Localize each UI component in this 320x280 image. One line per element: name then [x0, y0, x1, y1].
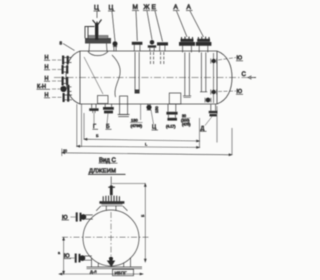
nozzle Ж neck	[150, 48, 154, 52]
svg-text:С: С	[242, 72, 247, 78]
bottom valve Ц handwheel	[146, 105, 151, 110]
extension line leftmost	[61, 149, 63, 157]
standpipe flange	[118, 115, 130, 117]
dim fraction bar	[130, 122, 143, 124]
leader Ж	[147, 11, 152, 40]
left nozzle Н3 stub	[62, 79, 68, 84]
nozzle А2 flange	[197, 39, 210, 42]
right vertical dimension	[144, 184, 146, 263]
nozzle М flange	[132, 42, 143, 45]
bottom nozzle Г neck	[92, 104, 96, 108]
left nozzle КН flanges	[67, 85, 69, 94]
height dim connector	[112, 183, 145, 185]
bottom nozzle П neck	[168, 104, 176, 112]
base plate	[87, 267, 143, 269]
leader Е	[155, 11, 163, 42]
nozzle Е internal stub	[161, 52, 164, 64]
end view horizontal centerline	[62, 236, 150, 238]
bottom nozzle Г flange	[89, 108, 98, 111]
left nozzle Н1 flanges	[62, 56, 64, 65]
leader Ц2	[112, 12, 115, 42]
internal baffle curve	[112, 55, 120, 97]
svg-text:(4.17): (4.17)	[166, 125, 175, 129]
svg-text:Ц: Ц	[94, 5, 99, 12]
nozzle Е flange	[157, 42, 168, 45]
nozzle А1 flange	[181, 39, 194, 42]
nozzle А1 studs	[182, 37, 193, 39]
nozzle Ю upper valve	[81, 214, 87, 220]
svg-text:150: 150	[154, 106, 159, 113]
head leader 5	[63, 44, 75, 51]
vessel shell top line	[80, 50, 217, 52]
cluster shoulders	[96, 206, 127, 211]
nozzle Е neck	[160, 46, 165, 52]
leader М	[136, 11, 137, 41]
end view vertical centerline	[110, 212, 112, 266]
leader Д	[205, 117, 212, 126]
support leg left inner	[97, 263, 99, 267]
valve Ц2 handwheel	[113, 41, 118, 46]
svg-text:а: а	[58, 251, 60, 255]
drain fitting circle	[109, 257, 113, 261]
extension line right head weld	[216, 106, 218, 143]
right head fitting Ю1	[212, 59, 216, 63]
view arrow С	[248, 76, 256, 79]
valve Ц2 stem	[113, 46, 117, 51]
vent mast body	[110, 186, 113, 196]
left nozzle КН valve handwheel	[60, 86, 66, 92]
vessel shell bottom line	[80, 103, 217, 105]
svg-text:130: 130	[131, 118, 138, 123]
bottom nozzle Б neck	[105, 104, 111, 107]
nozzle Д flanges	[209, 111, 218, 114]
bottom dimension line	[59, 273, 143, 275]
svg-text:ИБПГ: ИБПГ	[115, 271, 128, 276]
davit bracket	[85, 27, 95, 39]
vessel centerline	[54, 77, 256, 79]
leader Б	[107, 113, 108, 123]
leader Г	[93, 113, 95, 124]
manhole cover	[88, 36, 108, 39]
internal floor box 2	[169, 93, 181, 104]
davit fork	[93, 20, 102, 26]
left nozzle Н3 flanges	[62, 77, 64, 86]
right head fitting Ю2	[212, 90, 216, 94]
nozzle А2 neck	[199, 46, 208, 53]
bottom nozzle Д	[211, 105, 216, 111]
svg-text:М: М	[133, 4, 138, 11]
svg-text:30: 30	[182, 114, 186, 118]
svg-text:А: А	[187, 4, 192, 11]
cluster neck	[106, 206, 116, 210]
bottom standpipe	[120, 96, 128, 115]
left head	[66, 51, 80, 104]
svg-text:20: 20	[63, 149, 67, 153]
internal diagonal brace	[84, 57, 103, 94]
bottom nozzle П flanges	[166, 112, 177, 115]
support leg left outer	[91, 258, 93, 268]
internal baffle near right head	[213, 53, 215, 103]
leader Ц1	[96, 12, 98, 19]
dimension line 1	[84, 138, 200, 142]
leader Ю upper	[71, 216, 76, 218]
left nozzle Н2 flanges	[62, 65, 64, 74]
svg-text:ДЛЖЕИМ: ДЛЖЕИМ	[89, 169, 116, 175]
leader 130 dim	[140, 105, 142, 121]
svg-text:Б: Б	[96, 133, 99, 138]
nozzle А1 pipe foot	[183, 96, 191, 98]
drain bracket triangle	[107, 261, 115, 268]
nozzle Ж flange	[148, 45, 156, 47]
nozzle Ж internal stub	[150, 52, 153, 64]
leader Ю lower	[70, 257, 75, 259]
leader А2	[190, 11, 204, 37]
left nozzle Н1 stub	[62, 58, 72, 63]
mast crossbar	[108, 186, 115, 188]
head drain fitting	[206, 98, 211, 103]
boxed label ИБПГ	[113, 269, 134, 275]
svg-text:Е: Е	[152, 4, 157, 11]
leader А1	[177, 11, 188, 37]
nozzle М pipe tip	[135, 90, 140, 94]
leader Ю1	[218, 58, 236, 61]
right head weld seam	[216, 51, 218, 104]
end view nozzle Ю lower stub	[85, 256, 92, 260]
left labels leaders	[52, 60, 63, 97]
nozzle М internal pipe	[135, 52, 139, 90]
nozzle А2 pipe foot	[200, 91, 207, 93]
end view nozzle Ю upper stub	[86, 215, 93, 219]
end view shell circle	[83, 210, 139, 266]
nozzle А1 neck	[183, 46, 192, 53]
nozzle Ю lower valve	[80, 255, 86, 261]
top nozzle cluster studs	[103, 196, 119, 202]
svg-text:Ц: Ц	[109, 5, 114, 12]
left nozzle Н5 flanges	[63, 93, 65, 102]
manhole neck	[88, 44, 108, 56]
nozzle А2 studs	[198, 37, 209, 39]
manhole flange	[85, 39, 111, 44]
left vertical dimension	[63, 237, 65, 274]
support leg right inner	[123, 263, 125, 267]
left nozzle Н2 stub	[62, 67, 69, 72]
left head weld seam	[79, 51, 81, 104]
extension line rightmost	[231, 128, 233, 155]
nozzle Ю lower flanges	[75, 254, 77, 263]
valve Ж handwheel	[150, 40, 155, 45]
bottom nozzle Б flanges	[103, 107, 114, 110]
dimension line 3	[62, 152, 232, 156]
svg-text:А: А	[174, 4, 179, 11]
support leg right outer	[130, 258, 132, 268]
nozzle М neck	[134, 45, 140, 52]
svg-text:(475): (475)	[182, 122, 190, 126]
dimension line 2	[77, 145, 200, 148]
leader Ц	[151, 110, 154, 124]
bottom valve Ц stem	[147, 104, 152, 110]
svg-text:(4799): (4799)	[131, 123, 143, 128]
extension line left supports	[76, 104, 78, 147]
nozzle Ю upper flanges	[76, 212, 78, 221]
right head	[217, 51, 232, 104]
svg-text:Д-Л: Д-Л	[90, 269, 97, 274]
vent mast thin stem	[110, 177, 112, 186]
svg-text:Ц: Ц	[152, 125, 156, 131]
nozzle А2 internal pipe	[201, 52, 205, 91]
extension line manhole centre	[83, 113, 85, 140]
extension line right Д	[199, 118, 201, 148]
internal floor box 1	[98, 96, 109, 104]
top nozzle cluster flange plate	[99, 201, 124, 204]
nozzle А1 internal pipe	[185, 52, 190, 95]
left nozzle Н5 stub	[63, 95, 73, 100]
manhole davit arm	[95, 23, 98, 40]
leader Ю2	[218, 90, 236, 93]
top nozzle cluster lower plate	[101, 204, 122, 206]
svg-text:Ж: Ж	[144, 4, 150, 11]
